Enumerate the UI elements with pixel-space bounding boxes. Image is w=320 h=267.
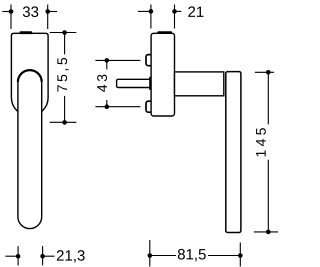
side view: spindle flange — [149, 77, 151, 90]
dimension 75,5: dots — [62, 30, 67, 35]
front view: top cap bump — [20, 31, 33, 34]
dimension 21,3: label — [57, 250, 85, 262]
dimension 145: dimension line — [267, 72, 269, 124]
side view: top screw boss — [146, 55, 154, 66]
dimension 81,5: label — [178, 249, 206, 261]
dimension 21: dots — [149, 9, 154, 14]
front view: rosette outline — [11, 33, 48, 116]
dimension 75,5: extension ticks — [50, 32, 77, 34]
dimension 21,3: dots — [16, 254, 21, 259]
dimension 145: label — [256, 128, 266, 156]
dimension 33: extension lines — [10, 5, 12, 30]
dimension 33: dots — [9, 9, 14, 14]
side view: backplate — [151, 33, 174, 116]
dimension 81,5: dimension line — [150, 255, 176, 257]
dimension 21,3: dimension line — [5, 255, 18, 257]
dimension 43: dimension line — [106, 60, 108, 69]
dimension 21: label — [188, 6, 203, 16]
dimension 75,5: dimension line — [64, 33, 66, 55]
dimension 75,5: label — [57, 58, 68, 92]
side view: top cap bump — [157, 31, 172, 34]
side view: bottom screw boss — [146, 101, 154, 112]
dimension 33: dimension line — [2, 11, 11, 13]
side view: neck — [175, 72, 224, 96]
dimension 43: dots — [105, 58, 110, 63]
dimension 21: dimension line — [138, 10, 151, 12]
dimension 21: extension lines — [150, 5, 152, 29]
front view: grip lever — [18, 70, 42, 229]
dimension 81,5: dots — [148, 253, 153, 258]
dimension 43: label — [97, 75, 107, 92]
side view: spindle — [117, 79, 152, 87]
dimension 81,5: extension lines — [149, 240, 151, 267]
dimension 145: extension ticks — [255, 71, 274, 73]
front view: grip dome cap seam — [18, 70, 42, 82]
side view: grip bar — [226, 72, 241, 233]
dimension 43: extension ticks — [95, 59, 140, 61]
dimension 33: label — [23, 6, 38, 17]
dimension 21,3: extension lines — [17, 246, 19, 265]
dimension 145: dots — [266, 70, 271, 75]
